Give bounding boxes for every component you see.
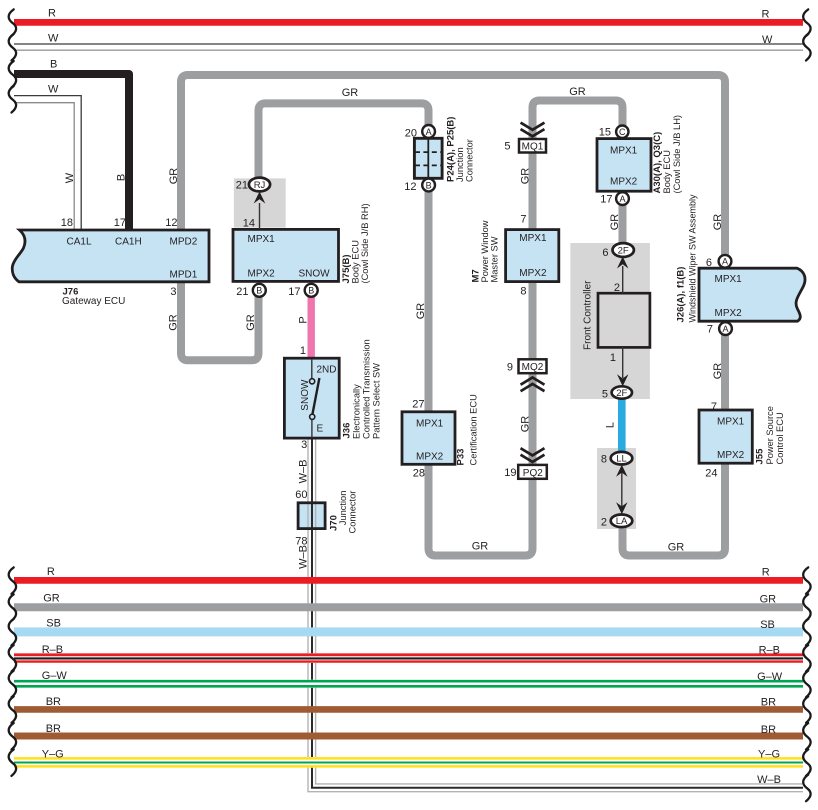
- svg-text:SB: SB: [46, 617, 61, 629]
- svg-text:R: R: [48, 8, 56, 20]
- svg-text:MPX2: MPX2: [717, 450, 745, 461]
- svg-text:W: W: [48, 33, 59, 45]
- svg-text:CA1L: CA1L: [67, 236, 92, 247]
- labels GR on horizontal wires: [342, 86, 685, 554]
- svg-text:W–B: W–B: [757, 774, 781, 786]
- wire R top bus: [9, 9, 811, 36]
- svg-text:MPX1: MPX1: [248, 234, 276, 245]
- wire L blue junction 2F pin5 - junction LL pin8: [618, 396, 626, 454]
- connector MQ2: [519, 359, 547, 373]
- svg-text:18: 18: [61, 217, 73, 229]
- svg-text:Gateway ECU: Gateway ECU: [62, 296, 125, 307]
- svg-text:78: 78: [295, 535, 307, 547]
- svg-text:W: W: [48, 84, 59, 96]
- svg-text:CA1H: CA1H: [115, 236, 142, 247]
- svg-text:6: 6: [602, 247, 608, 259]
- svg-text:12: 12: [165, 217, 177, 229]
- junction 2F top with arrow into Front Controller pin2: [613, 243, 634, 293]
- labels switch M7: [471, 214, 547, 298]
- svg-text:MPX1: MPX1: [715, 274, 743, 285]
- wire BR bottom bus 1: [9, 696, 811, 723]
- svg-text:W–B: W–B: [297, 460, 309, 484]
- svg-text:17: 17: [288, 286, 300, 298]
- connector MQ1: [519, 139, 546, 153]
- junction RJ oval with arrow from J75 pin14: [249, 178, 270, 229]
- svg-text:MPX1: MPX1: [519, 233, 547, 244]
- svg-text:12: 12: [404, 181, 416, 193]
- labels junction connector P24 P25: [404, 117, 474, 193]
- svg-text:2F: 2F: [618, 245, 629, 256]
- svg-text:(Cowl Side J/B LH): (Cowl Side J/B LH): [672, 115, 682, 194]
- svg-text:W: W: [762, 34, 773, 46]
- wire BR bottom bus 2: [9, 723, 811, 750]
- ECU J76 Gateway ECU (torn left edge): [12, 230, 209, 282]
- svg-text:L: L: [605, 422, 617, 428]
- svg-text:GR: GR: [712, 363, 724, 380]
- svg-text:SB: SB: [760, 619, 775, 631]
- junction connector P24(A) P25(B): [414, 138, 442, 178]
- svg-text:P33: P33: [456, 449, 467, 466]
- node A pin6 of J26: [719, 255, 732, 268]
- svg-text:GR: GR: [43, 593, 60, 605]
- svg-text:5: 5: [504, 140, 510, 152]
- svg-text:28: 28: [413, 468, 425, 480]
- svg-text:Controlled Transmission: Controlled Transmission: [362, 339, 372, 439]
- svg-text:7: 7: [707, 324, 713, 336]
- svg-text:A: A: [426, 127, 432, 137]
- svg-text:J26(A), f1(B): J26(A), f1(B): [676, 267, 687, 323]
- labels ECU J26: [676, 194, 743, 336]
- wire R bottom bus: [9, 567, 811, 594]
- svg-text:P: P: [297, 316, 309, 323]
- chevrons at MQ2: [522, 378, 544, 391]
- svg-text:8: 8: [601, 454, 607, 466]
- svg-text:1: 1: [300, 345, 306, 357]
- svg-text:LL: LL: [616, 454, 627, 465]
- svg-text:G–W: G–W: [42, 670, 68, 682]
- svg-text:GR: GR: [519, 168, 531, 185]
- svg-text:MPX2: MPX2: [610, 177, 638, 188]
- wire R-B bottom bus (red with black stripe): [9, 645, 811, 672]
- wire Y-G bottom bus (yellow with green stripe): [9, 749, 811, 776]
- svg-text:BR: BR: [761, 724, 776, 736]
- wire B top bus - J76 CA1H pin17: [9, 61, 129, 230]
- svg-text:17: 17: [600, 193, 612, 205]
- ECU J55 Power Source Control ECU: [699, 410, 752, 463]
- node B pin21 of J75: [253, 284, 266, 297]
- svg-text:MPX2: MPX2: [248, 268, 276, 279]
- wire W second bus - J76 CA1L pin18 (white wire outline): [9, 86, 82, 230]
- node B pin12 of P24: [422, 179, 435, 192]
- node A pin7 of J26: [719, 322, 732, 335]
- svg-text:GR: GR: [245, 314, 257, 331]
- node A pin17 of A30: [616, 192, 629, 205]
- svg-text:(Cowl Side J/B RH): (Cowl Side J/B RH): [360, 203, 370, 283]
- node C pin15 of A30: [616, 126, 628, 138]
- chevrons at PQ2: [522, 449, 544, 462]
- svg-text:GR: GR: [760, 594, 777, 606]
- labels ECU J75: [236, 180, 370, 299]
- svg-text:J55: J55: [755, 448, 766, 465]
- svg-text:Power Window: Power Window: [480, 220, 490, 282]
- wire GR bottom bus: [9, 594, 811, 621]
- svg-text:GR: GR: [168, 168, 180, 185]
- svg-text:2: 2: [614, 282, 620, 294]
- svg-text:MPX1: MPX1: [610, 145, 638, 156]
- wire W-B J36 pin3 - J70 - bottom bus W-B (white wire, black stripe): [308, 438, 803, 792]
- svg-text:8: 8: [520, 285, 526, 297]
- labels connector MQ1: [504, 140, 543, 152]
- labels ECU J76: [61, 217, 198, 307]
- labels junction connector J70: [295, 489, 357, 548]
- svg-text:B: B: [116, 174, 128, 181]
- svg-text:Y–G: Y–G: [758, 749, 780, 761]
- svg-text:Master SW: Master SW: [490, 236, 500, 282]
- svg-text:MPX2: MPX2: [416, 451, 444, 462]
- svg-text:3: 3: [301, 439, 307, 451]
- svg-text:2: 2: [601, 517, 607, 529]
- svg-text:Certification ECU: Certification ECU: [469, 394, 479, 465]
- svg-text:B: B: [308, 286, 314, 296]
- svg-text:60: 60: [295, 489, 307, 501]
- svg-text:17: 17: [114, 217, 126, 229]
- switch J36 Electronically Controlled Transmission Pattern Select SW: [284, 358, 339, 438]
- svg-text:R–B: R–B: [42, 644, 63, 656]
- svg-text:MQ1: MQ1: [522, 141, 544, 152]
- svg-text:R–B: R–B: [759, 645, 780, 657]
- shaded backdrop for Front Controller: [570, 243, 650, 399]
- svg-text:BR: BR: [46, 696, 61, 708]
- svg-text:7: 7: [520, 214, 526, 226]
- svg-text:R: R: [762, 9, 770, 21]
- svg-text:MPX1: MPX1: [717, 417, 745, 428]
- svg-text:Y–G: Y–G: [42, 749, 64, 761]
- svg-text:MPD2: MPD2: [170, 236, 198, 247]
- chevrons at MQ1: [522, 123, 544, 136]
- junction 2F bottom with arrow from Front Controller pin1: [612, 347, 632, 399]
- svg-text:SNOW: SNOW: [300, 379, 311, 411]
- wire GR P33 MPX2 pin28 - bottom - PQ2 - MQ2 - M7 MPX2 pin8, M7 MPX1 pin7 - MQ1 - top - A30 MPX1 pin15, A30 MPX2 pin17 - junction 2F: [429, 101, 623, 556]
- junction LL and LA with double arrows: [611, 452, 633, 527]
- svg-text:24: 24: [705, 468, 717, 480]
- svg-text:21: 21: [236, 180, 248, 192]
- labels ECU J55: [705, 401, 785, 479]
- wire GR outer loop J76 MPD2 pin12 - top - J26 pin6, and J76 MPD1 pin3 - J75 MPX2 pin21: [181, 75, 725, 360]
- svg-text:GR: GR: [342, 87, 359, 99]
- labels Front Controller: [583, 247, 621, 529]
- svg-text:Control ECU: Control ECU: [775, 412, 785, 464]
- svg-text:Connector: Connector: [465, 139, 475, 182]
- svg-text:MPX2: MPX2: [715, 308, 743, 319]
- wire W-B bottom bus right squiggle: [803, 775, 810, 802]
- svg-text:E: E: [317, 424, 324, 435]
- svg-text:R: R: [762, 566, 770, 578]
- svg-text:A: A: [619, 194, 625, 204]
- svg-text:GR: GR: [609, 214, 621, 231]
- labels top bus wires: [48, 8, 773, 96]
- svg-text:Junction: Junction: [338, 491, 348, 526]
- shaded backdrop for junction RJ: [234, 178, 286, 227]
- svg-text:GR: GR: [168, 314, 180, 331]
- svg-text:15: 15: [599, 127, 611, 139]
- svg-text:GR: GR: [415, 303, 427, 320]
- labels switch J36: [300, 339, 382, 451]
- wire GR junction LA - bottom - J55 MPX2 pin24, J55 MPX1 pin7 - J26 MPX2 pin7: [623, 329, 726, 556]
- labels connector PQ2: [504, 467, 543, 479]
- svg-text:LA: LA: [616, 516, 628, 527]
- wire GR J75 MPX1 junction RJ - top - P24 junction connector - P33 MPX1 pin27: [259, 103, 429, 411]
- connector PQ2: [518, 465, 547, 479]
- svg-text:A: A: [722, 324, 728, 334]
- svg-text:19: 19: [504, 467, 516, 479]
- svg-text:G–W: G–W: [757, 671, 783, 683]
- svg-text:A: A: [722, 257, 728, 267]
- svg-text:MPX1: MPX1: [416, 419, 444, 430]
- svg-text:PQ2: PQ2: [523, 468, 543, 479]
- svg-text:6: 6: [706, 257, 712, 269]
- svg-text:B: B: [50, 59, 57, 71]
- node A pin20 of P24: [422, 125, 435, 138]
- svg-text:27: 27: [412, 399, 424, 411]
- svg-text:14: 14: [243, 217, 255, 229]
- Front Controller inner box: [598, 293, 650, 347]
- svg-text:20: 20: [405, 128, 417, 140]
- svg-text:BR: BR: [761, 697, 776, 709]
- shaded backdrop for junctions LL-LA: [597, 448, 636, 529]
- svg-text:R: R: [47, 566, 55, 578]
- svg-text:Electronically: Electronically: [352, 384, 362, 439]
- labels ECU A30: [599, 115, 682, 205]
- ECU J75(B) Body ECU (Cowl Side J/B RH): [233, 229, 339, 281]
- wire P pink J75 SNOW pin17 - J36 pin1: [308, 295, 315, 359]
- wire W top bus: [9, 34, 811, 61]
- svg-text:SNOW: SNOW: [299, 268, 331, 279]
- svg-text:Junction: Junction: [455, 147, 465, 182]
- svg-text:Connector: Connector: [348, 491, 358, 534]
- svg-text:Body ECU: Body ECU: [351, 240, 361, 283]
- labels rotated on vertical wires top-left: [64, 168, 724, 569]
- wire G-W bottom bus (green with white stripe): [9, 671, 811, 698]
- labels connector MQ2: [507, 361, 544, 373]
- svg-text:W: W: [64, 172, 76, 183]
- svg-text:GR: GR: [712, 214, 724, 231]
- svg-text:2F: 2F: [616, 388, 627, 399]
- svg-text:BR: BR: [46, 723, 61, 735]
- svg-text:GR: GR: [519, 416, 531, 433]
- svg-text:3: 3: [170, 286, 176, 298]
- svg-text:Front Controller: Front Controller: [583, 280, 594, 350]
- node B pin17 of J75: [305, 284, 318, 297]
- ECU P33 Certification ECU: [402, 412, 455, 465]
- svg-text:Power Source: Power Source: [765, 406, 775, 464]
- ECU J26(A) f1(B) Windshield Wiper SW Assembly (torn right edge): [699, 268, 805, 321]
- svg-text:GR: GR: [569, 86, 586, 98]
- svg-text:B: B: [426, 180, 432, 190]
- svg-text:Body ECU: Body ECU: [662, 150, 672, 193]
- svg-text:21: 21: [236, 286, 248, 298]
- svg-text:W–B: W–B: [297, 545, 309, 569]
- svg-text:Pattern Select SW: Pattern Select SW: [372, 363, 382, 439]
- labels bottom bus wires right: [757, 566, 783, 786]
- switch M7 Power Window Master SW: [506, 230, 559, 282]
- svg-text:Windshield Wiper SW Assembly: Windshield Wiper SW Assembly: [688, 194, 698, 323]
- svg-text:5: 5: [602, 389, 608, 401]
- svg-text:RJ: RJ: [254, 180, 266, 191]
- wire SB bottom bus: [9, 619, 811, 646]
- svg-text:MPX2: MPX2: [519, 268, 547, 279]
- labels bottom bus wires left: [42, 566, 68, 761]
- svg-text:B: B: [256, 286, 262, 296]
- ECU A30(A) Q3(C) Body ECU (Cowl Side J/B LH): [597, 139, 651, 192]
- svg-text:GR: GR: [668, 542, 685, 554]
- svg-text:GR: GR: [472, 541, 489, 553]
- svg-text:MPD1: MPD1: [170, 270, 198, 281]
- junction connector J70 (border over wire): [298, 503, 325, 529]
- svg-text:MQ2: MQ2: [522, 362, 544, 373]
- fill of junction connector J70 (under wire): [298, 503, 325, 529]
- svg-text:2ND: 2ND: [317, 364, 337, 375]
- svg-text:7: 7: [711, 401, 717, 413]
- svg-text:C: C: [619, 127, 626, 137]
- svg-text:9: 9: [507, 361, 513, 373]
- svg-text:1: 1: [610, 352, 616, 364]
- labels ECU P33: [412, 394, 478, 479]
